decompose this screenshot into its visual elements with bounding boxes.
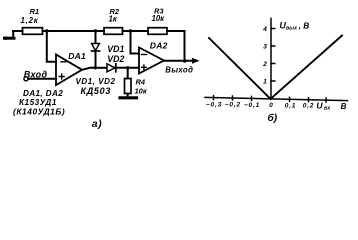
svg-text:вх: вх xyxy=(324,106,331,112)
x tick -0.1 xyxy=(251,96,253,100)
wire R1 to R2 (top rail) xyxy=(43,30,105,32)
node: VD1 tap xyxy=(94,29,97,32)
node: R4 tap xyxy=(126,66,129,69)
ground (left, at R1 input) xyxy=(4,31,14,40)
svg-text:4: 4 xyxy=(262,26,267,33)
svg-text:U: U xyxy=(316,100,323,110)
node: feedback tap xyxy=(45,29,48,32)
resistor R2 xyxy=(104,28,123,35)
op-amp DA1 xyxy=(56,51,86,85)
svg-text:10к: 10к xyxy=(135,87,148,96)
svg-text:КД503: КД503 xyxy=(81,86,112,96)
svg-text:−0,1: −0,1 xyxy=(244,102,260,109)
node: DA2 inverting tap xyxy=(129,29,132,32)
svg-text:R1: R1 xyxy=(30,7,40,16)
svg-text:−0,3: −0,3 xyxy=(206,102,222,109)
wire ground to R1 xyxy=(13,30,22,32)
svg-text:3: 3 xyxy=(263,44,267,51)
diode VD1 xyxy=(92,31,125,68)
label DA1,DA2 device types xyxy=(13,89,65,116)
input terminal xyxy=(24,69,56,81)
x tick 0.2 xyxy=(308,98,310,102)
resistor R1 xyxy=(23,28,43,35)
x tick -0.3 xyxy=(213,96,215,100)
svg-text:Выход: Выход xyxy=(165,65,193,74)
svg-text:DA1, DA2: DA1, DA2 xyxy=(23,89,63,98)
svg-text:1к: 1к xyxy=(109,15,118,24)
y tick 2 xyxy=(271,63,275,65)
svg-text:, В: , В xyxy=(298,20,310,30)
y tick 1 xyxy=(271,80,275,82)
svg-text:б): б) xyxy=(268,112,278,124)
svg-text:−0,2: −0,2 xyxy=(225,102,241,109)
svg-text:10к: 10к xyxy=(152,14,166,23)
resistor R4 xyxy=(125,68,148,96)
svg-text:(К140УД1Б): (К140УД1Б) xyxy=(13,106,65,116)
wire DA1 output to VD2 node xyxy=(82,68,96,70)
svg-text:0: 0 xyxy=(269,102,273,109)
wire R2 to R3 xyxy=(123,30,149,32)
diode VD2 xyxy=(96,54,140,72)
op-amp DA2 xyxy=(139,40,168,73)
svg-text:0,2: 0,2 xyxy=(303,103,315,110)
svg-text:а): а) xyxy=(92,118,102,130)
ground (under R4) xyxy=(120,94,137,98)
transfer curve right branch xyxy=(271,36,343,99)
svg-text:VD1: VD1 xyxy=(107,44,124,54)
svg-text:DA2: DA2 xyxy=(150,40,168,50)
x tick -0.2 xyxy=(232,96,234,100)
svg-text:Вход: Вход xyxy=(24,69,48,79)
svg-text:R4: R4 xyxy=(136,78,146,87)
node: output junction xyxy=(183,59,187,63)
x tick 0.1 xyxy=(289,97,291,101)
svg-text:VD1, VD2: VD1, VD2 xyxy=(76,77,116,86)
svg-text:VD2: VD2 xyxy=(107,54,124,64)
x tick 0.3 xyxy=(325,98,327,102)
svg-text:0,1: 0,1 xyxy=(285,102,297,109)
node: DA1 out / VD1 / VD2 xyxy=(94,66,97,69)
label VD1,VD2 device types xyxy=(76,77,116,96)
svg-text:В: В xyxy=(341,102,347,111)
svg-text:1: 1 xyxy=(263,79,267,86)
output wire with arrow xyxy=(164,58,200,75)
x axis xyxy=(205,97,348,100)
transfer curve left branch xyxy=(209,38,271,99)
y tick 3 xyxy=(271,45,275,47)
y tick 4 xyxy=(271,28,275,30)
svg-text:2: 2 xyxy=(262,61,267,68)
wire R3 to output node xyxy=(167,31,185,61)
wire to DA2 inverting input xyxy=(131,31,140,54)
wire feedback to DA1 inverting input xyxy=(47,31,56,62)
svg-text:вых: вых xyxy=(286,25,298,31)
resistor R3 xyxy=(148,28,167,35)
svg-text:DA1: DA1 xyxy=(68,51,86,61)
y axis xyxy=(270,19,272,99)
svg-text:1,2к: 1,2к xyxy=(21,16,39,25)
